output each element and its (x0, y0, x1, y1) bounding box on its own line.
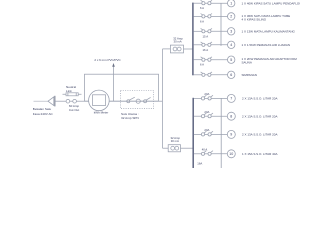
lower busbar (192, 98, 194, 168)
circuit number 2 (228, 13, 235, 20)
neutral link wire (63, 93, 82, 95)
wire (205, 15, 208, 17)
switch blade 2 (144, 100, 147, 103)
svg-text:4 X KIPAS SILING: 4 X KIPAS SILING (242, 17, 267, 21)
svg-text:5: 5 (230, 58, 232, 62)
svg-text:Cut Out: Cut Out (69, 108, 80, 112)
wire (205, 133, 208, 135)
circuit number 9 (227, 130, 235, 138)
circuit number 10 (227, 150, 235, 158)
wire (140, 100, 143, 102)
circuit number 5 (228, 56, 235, 63)
wire (205, 44, 208, 46)
svg-text:6 A: 6 A (200, 6, 204, 10)
svg-text:20A: 20A (204, 92, 209, 96)
incoming supply arrow (48, 97, 54, 106)
wire (76, 100, 88, 102)
svg-text:32 Amp SPN: 32 Amp SPN (121, 116, 139, 120)
service cable riser (113, 66, 115, 101)
lower neutral bar (220, 98, 222, 168)
svg-text:4: 4 (230, 43, 232, 47)
circuit number 4 (228, 41, 235, 48)
wire (55, 100, 66, 102)
wire (205, 115, 208, 117)
wire (205, 74, 208, 76)
wire supply tail (34, 100, 49, 102)
svg-text:Fasa 240V AC: Fasa 240V AC (33, 112, 54, 116)
wire (205, 59, 208, 61)
wire branch 6 (194, 74, 202, 76)
wire branch 2 (194, 15, 202, 17)
wire branch 9 (194, 133, 202, 135)
main switch enclosure (121, 90, 154, 108)
MCB breaker 2 (202, 15, 205, 18)
svg-text:2 X 13A S.S.O. LITAR 20A: 2 X 13A S.S.O. LITAR 20A (242, 133, 277, 137)
riser to upper board (162, 49, 164, 101)
MCB breaker 3 (202, 30, 205, 33)
svg-text:30 mA: 30 mA (171, 139, 179, 143)
svg-text:2 X 13A S.S.O. LITAR 20A: 2 X 13A S.S.O. LITAR 20A (242, 114, 277, 118)
svg-text:16A: 16A (197, 161, 202, 165)
neutral link NL (66, 93, 78, 96)
wire (205, 97, 208, 99)
wire (130, 100, 136, 102)
svg-text:Link: Link (66, 89, 72, 93)
wire (109, 100, 120, 102)
wire (163, 48, 171, 50)
ELCB lower 32Amp 30mA (168, 145, 180, 152)
fuse link (136, 99, 140, 103)
upper neutral bar (220, 3, 222, 46)
circuit number 7 (227, 94, 235, 102)
svg-text:Bekalan Satu: Bekalan Satu (33, 107, 52, 111)
svg-text:SIMPANAN: SIMPANAN (242, 73, 257, 77)
svg-text:6 A: 6 A (200, 63, 204, 67)
svg-text:10: 10 (229, 152, 233, 156)
svg-text:9: 9 (230, 133, 232, 137)
MCB breaker 5 (202, 58, 205, 61)
riser to lower board (162, 101, 164, 148)
wire (121, 100, 127, 102)
svg-text:7: 7 (230, 97, 232, 101)
svg-text:2 X 13A S.S.O. LITAR 20A: 2 X 13A S.S.O. LITAR 20A (242, 97, 277, 101)
svg-text:8: 8 (230, 115, 232, 119)
circuit number 8 (227, 112, 235, 120)
svg-text:1 X 15A S.S.O. LITAR 40A: 1 X 15A S.S.O. LITAR 40A (242, 152, 277, 156)
svg-text:16 A: 16 A (202, 48, 208, 52)
svg-text:40 A: 40 A (202, 148, 208, 152)
svg-text:20A: 20A (204, 110, 209, 114)
svg-text:15 A: 15 A (202, 34, 208, 38)
MCB breaker 7 (201, 97, 204, 100)
MCB breaker 10 (201, 152, 204, 155)
svg-text:6 A: 6 A (200, 19, 204, 23)
MCB breaker 1 (202, 2, 205, 5)
wire (184, 48, 193, 50)
svg-text:1: 1 (230, 2, 232, 6)
MCB breaker 6 (202, 73, 205, 76)
svg-text:1 X 40W KIPAS SATU LAMPU PENDA: 1 X 40W KIPAS SATU LAMPU PENDAFLOUR (242, 1, 301, 5)
wire branch 7 (194, 97, 202, 99)
cutout fuse F1 (66, 99, 70, 103)
service cable arrow (112, 63, 115, 67)
circuit number 3 (228, 28, 235, 35)
upper busbar (192, 3, 194, 76)
wire (205, 30, 208, 32)
svg-text:1 X 13W MATA LAMPU KALIMANTANG: 1 X 13W MATA LAMPU KALIMANTANG (242, 30, 296, 34)
wire branch 5 (194, 59, 202, 61)
svg-text:kWh Meter: kWh Meter (94, 111, 109, 115)
svg-text:3: 3 (230, 30, 232, 34)
circuit number 6 (228, 71, 235, 78)
kWh meter M1 (89, 90, 110, 111)
circuit number 1 (228, 0, 235, 7)
wire branch 3 (194, 30, 202, 32)
wire branch 10 (194, 153, 202, 155)
svg-text:2: 2 (230, 15, 232, 19)
wire (205, 153, 208, 155)
svg-text:1 X 1.5KW PEMANAS AIR LUARAN: 1 X 1.5KW PEMANAS AIR LUARAN (242, 43, 291, 47)
wire (181, 147, 194, 149)
ELCB upper 32Amp 30mA (170, 45, 183, 53)
wire branch 8 (194, 115, 202, 117)
wire branch 1 (194, 2, 202, 4)
MCB breaker 9 (201, 133, 204, 136)
svg-text:2 x 6 mm PVC/PVC: 2 x 6 mm PVC/PVC (94, 58, 121, 62)
wire branch 4 (194, 44, 202, 46)
MCB breaker 4 (202, 43, 205, 46)
svg-text:20A: 20A (204, 128, 209, 132)
wire (163, 147, 169, 149)
svg-text:6: 6 (230, 73, 232, 77)
main switch S1 (127, 100, 130, 103)
supply terminal bar (54, 96, 56, 107)
svg-text:SAUNA: SAUNA (242, 61, 252, 65)
svg-text:30 mA: 30 mA (174, 40, 182, 44)
meter board outline (85, 74, 159, 101)
wire (147, 100, 163, 102)
wire (205, 2, 208, 4)
MCB breaker 8 (201, 115, 204, 118)
